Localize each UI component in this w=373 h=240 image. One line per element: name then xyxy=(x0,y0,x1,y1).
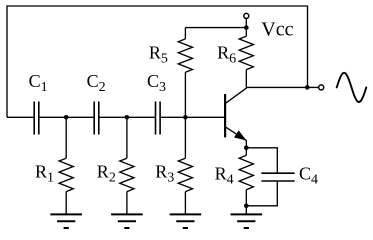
resistor R6 xyxy=(239,28,253,88)
wire : emitter node to C4 branch xyxy=(246,148,277,173)
wire : collector/output line xyxy=(246,86,318,88)
wire : input line into C1 xyxy=(7,116,34,118)
node : Vcc junction xyxy=(244,25,249,30)
transistor Q1 : emitter arrowhead xyxy=(235,131,245,140)
ground : below R3 xyxy=(170,214,202,228)
transistor Q1 : emitter lead xyxy=(225,127,246,148)
capacitor C4 xyxy=(261,173,294,181)
svg-text:Vcc: Vcc xyxy=(261,18,293,40)
wire : lead into ground xyxy=(245,206,247,215)
wire : Vcc terminal lead xyxy=(245,18,247,27)
wire : C1 to C2 xyxy=(39,116,94,118)
capacitor C3 xyxy=(156,102,161,135)
node : junction C2/R2 xyxy=(125,115,130,120)
svg-text:R2: R2 xyxy=(97,161,116,185)
resistor R1 xyxy=(59,117,73,214)
svg-text:C3: C3 xyxy=(147,71,166,95)
node : emitter junction xyxy=(244,146,249,151)
svg-text:C2: C2 xyxy=(87,71,106,95)
terminal : output open circle xyxy=(319,85,324,90)
wire : feedback loop border (left, top, right) xyxy=(7,6,308,117)
svg-text:R1: R1 xyxy=(35,161,54,185)
ground : below R1 xyxy=(50,214,82,228)
ground : below R4/C4 xyxy=(231,214,263,228)
resistor R5 xyxy=(178,28,192,118)
node : R4/C4 bottom junction xyxy=(244,204,249,209)
svg-text:C4: C4 xyxy=(299,163,318,187)
svg-text:R6: R6 xyxy=(217,43,236,67)
waveform : output sine xyxy=(337,73,367,102)
ground : below R2 xyxy=(111,214,143,228)
wire : C4 bottom to ground node xyxy=(246,181,277,206)
node : output/feedback junction xyxy=(305,85,310,90)
wire : Vcc rail from R5 top to R6 top xyxy=(185,27,246,29)
node : junction C1/R1 xyxy=(64,115,69,120)
resistor R4 xyxy=(239,148,253,206)
transistor Q1 : collector lead xyxy=(225,87,246,103)
terminal : Vcc open circle xyxy=(244,13,249,18)
wire : C2 to C3 xyxy=(99,116,156,118)
resistor R3 xyxy=(178,117,192,214)
svg-text:C1: C1 xyxy=(29,71,48,95)
resistor R2 xyxy=(120,117,134,214)
transistor Q1 : base bar xyxy=(224,94,226,137)
capacitor C2 xyxy=(94,102,99,135)
capacitor C1 xyxy=(34,102,39,135)
svg-text:R5: R5 xyxy=(149,43,168,67)
svg-text:R4: R4 xyxy=(215,163,234,187)
node : junction C3/R3/R5/base xyxy=(183,115,188,120)
wire : C3 to transistor base xyxy=(160,116,224,118)
svg-text:R3: R3 xyxy=(155,161,174,185)
